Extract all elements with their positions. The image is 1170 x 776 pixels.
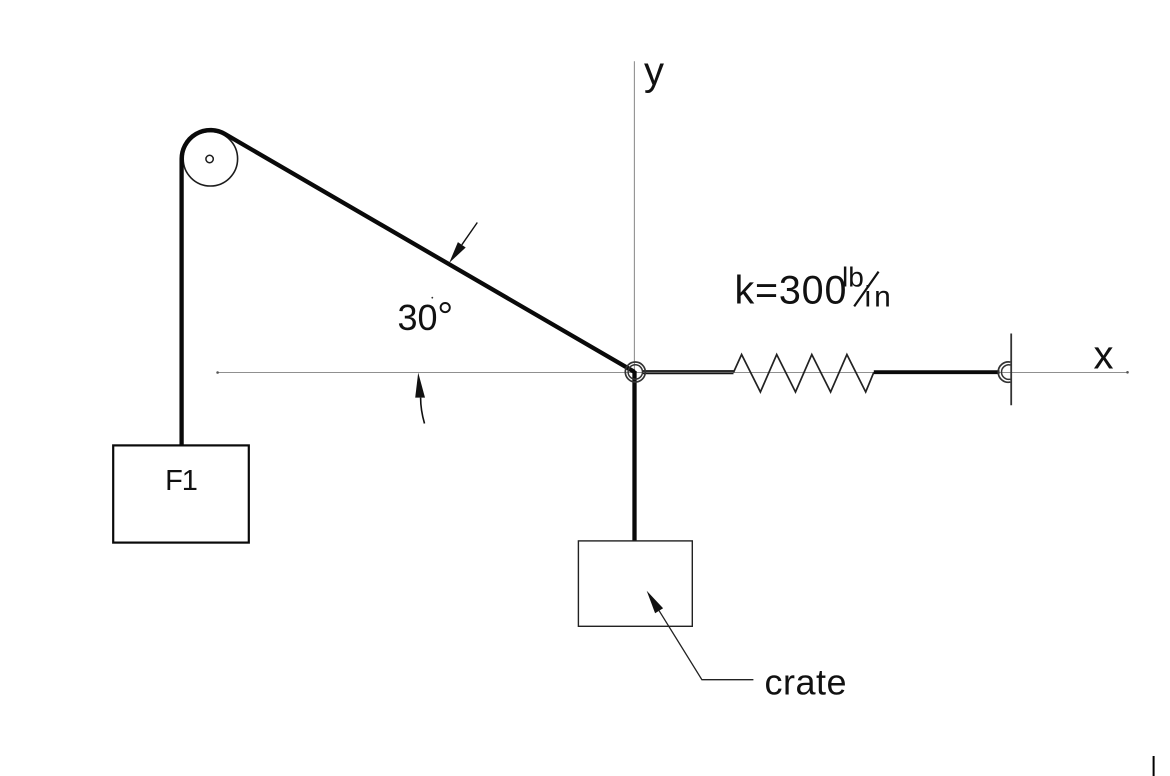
- svg-text:lb: lb: [842, 262, 864, 293]
- svg-text:crate: crate: [765, 661, 848, 702]
- svg-text:x: x: [1094, 333, 1114, 377]
- svg-text:in: in: [865, 280, 894, 313]
- svg-text:F1: F1: [165, 465, 197, 497]
- svg-text:y: y: [644, 50, 664, 94]
- svg-text:30: 30: [398, 297, 438, 338]
- svg-text:k=300: k=300: [735, 269, 848, 313]
